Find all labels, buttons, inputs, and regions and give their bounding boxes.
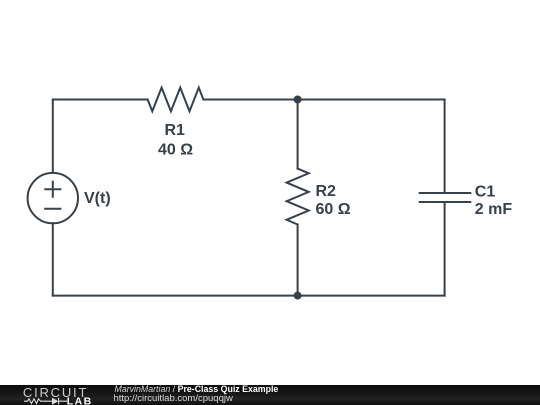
wire right vertical upper — [444, 100, 446, 194]
wire left vertical lower — [52, 223, 54, 295]
svg-text:C1: C1 — [475, 183, 496, 200]
wire left vertical upper — [52, 100, 54, 173]
resistor R2 — [287, 169, 309, 225]
minus sign — [45, 208, 60, 210]
credit line 1 — [115, 385, 279, 394]
svg-text:LAB: LAB — [67, 395, 93, 405]
svg-text:60 Ω: 60 Ω — [316, 201, 351, 218]
wire top left horizontal — [53, 99, 148, 101]
node junction bottom — [294, 292, 302, 300]
diode triangle — [52, 398, 58, 405]
svg-text:R2: R2 — [316, 183, 337, 200]
node junction top — [294, 96, 302, 104]
logo resistor zigzag — [24, 398, 67, 405]
CircuitLab logo — [0, 384, 100, 405]
capacitor C1 — [420, 193, 471, 202]
wire top right horizontal — [203, 99, 444, 101]
wire middle branch lower — [297, 225, 299, 296]
svg-text:R1: R1 — [164, 122, 185, 139]
svg-text:2 mF: 2 mF — [475, 201, 513, 218]
plus sign — [45, 182, 60, 197]
wire bottom horizontal — [53, 295, 445, 297]
resistor R1 — [148, 88, 204, 112]
credit line 2 — [114, 394, 233, 404]
wire right vertical lower — [444, 202, 446, 296]
voltage source V1 — [28, 173, 78, 223]
svg-text:40 Ω: 40 Ω — [158, 142, 193, 159]
svg-text:V(t): V(t) — [84, 190, 111, 207]
diode bar and wire — [59, 398, 67, 405]
wire middle branch upper — [297, 100, 299, 169]
footer bar — [0, 385, 540, 405]
